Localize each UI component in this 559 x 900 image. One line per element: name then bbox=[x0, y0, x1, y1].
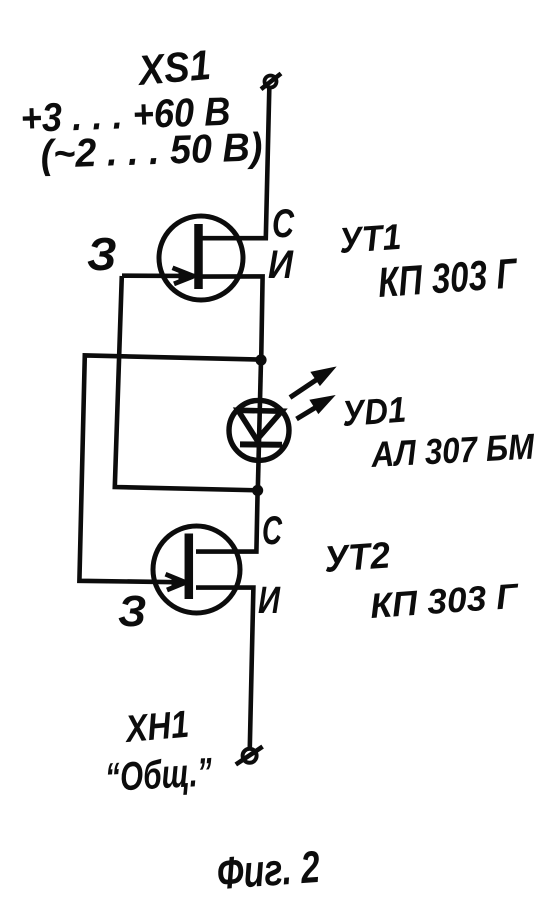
wire VT2 source to XH1 bbox=[196, 588, 253, 748]
wire VT1 gate to node B bbox=[115, 276, 258, 490]
VT2 gate arrow bbox=[166, 574, 187, 590]
svg-text:Фиг. 2: Фиг. 2 bbox=[215, 841, 321, 899]
wire VT1 gate lead bbox=[122, 273, 196, 278]
svg-text:АЛ 307 БМ: АЛ 307 БМ bbox=[369, 425, 536, 475]
wire VT1 source to node A bbox=[199, 276, 263, 360]
svg-text:XH1: XH1 bbox=[122, 704, 190, 751]
transistor VT2 bbox=[153, 526, 240, 613]
svg-text:КП 303 Г: КП 303 Г bbox=[369, 577, 521, 626]
svg-text:И: И bbox=[268, 243, 294, 287]
wire XS1 to VT1 drain bbox=[199, 89, 269, 239]
LED light arrow 2 bbox=[297, 397, 334, 420]
svg-text:З: З bbox=[87, 228, 117, 280]
svg-text:З: З bbox=[118, 587, 146, 636]
wire LED lead (node A to node B through LED) bbox=[258, 360, 261, 490]
svg-text:С: С bbox=[262, 509, 283, 553]
VT1 gate arrow bbox=[173, 268, 195, 284]
svg-text:КП 303 Г: КП 303 Г bbox=[376, 249, 520, 306]
svg-text:УТ1: УТ1 bbox=[338, 216, 403, 261]
svg-text:УТ2: УТ2 bbox=[323, 534, 392, 580]
svg-text:XS1: XS1 bbox=[135, 41, 213, 94]
svg-text:“Общ.”: “Общ.” bbox=[104, 750, 213, 800]
node B (junction VT2 drain / LED cathode) bbox=[252, 485, 263, 496]
terminal XH1 bbox=[236, 747, 263, 765]
wire VT2 drain to node B bbox=[196, 491, 258, 552]
node A (junction VT1 source / LED anode) bbox=[255, 354, 266, 365]
svg-text:УD1: УD1 bbox=[341, 389, 408, 434]
svg-text:И: И bbox=[258, 580, 281, 622]
terminal XS1 bbox=[261, 74, 281, 90]
svg-text:(~2 . . . 50 В): (~2 . . . 50 В) bbox=[40, 125, 263, 177]
transistor VT1 bbox=[159, 216, 243, 300]
svg-text:С: С bbox=[272, 202, 295, 246]
LED light arrow 1 bbox=[290, 368, 334, 398]
LED VD1 bbox=[229, 400, 289, 460]
wire node A to VT2 gate bbox=[79, 355, 260, 582]
